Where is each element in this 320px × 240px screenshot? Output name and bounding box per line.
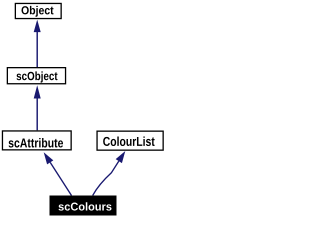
class box scObject: [7, 68, 65, 84]
class box Object: [15, 3, 61, 18]
class box scColours (current class, filled black): [50, 196, 117, 216]
inheritance arrow scObject to Object: [34, 20, 41, 67]
class box scAttribute: [2, 131, 71, 150]
inheritance arrow scColours to scAttribute: [44, 152, 72, 195]
inheritance arrow scColours to ColourList: [93, 151, 126, 195]
inheritance arrow scAttribute to scObject: [34, 85, 41, 130]
class box ColourList: [97, 131, 163, 150]
